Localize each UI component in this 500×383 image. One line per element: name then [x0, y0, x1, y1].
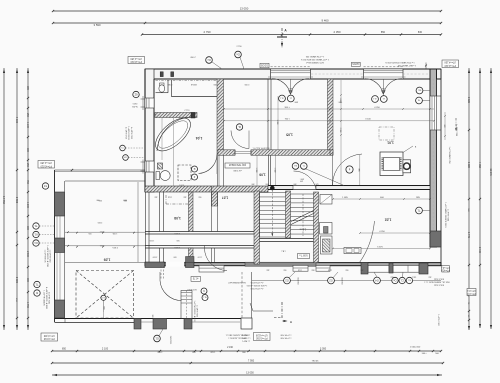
tag circle TZ [42, 183, 48, 189]
section marker A top [281, 28, 283, 48]
svg-text:K1: K1 [34, 233, 38, 237]
wing south line [65, 262, 145, 264]
stair mid hatched wall [286, 191, 291, 238]
svg-text:4 x LPTH 7030: 4 x LPTH 7030 [251, 287, 264, 289]
svg-text:UT=+4,158: UT=+4,158 [130, 57, 142, 59]
wing wall pier 2 [55, 238, 65, 253]
svg-text:900 t: 900 t [285, 106, 290, 109]
bottom dim line 2 [52, 362, 443, 364]
tag circle E1 porch [154, 335, 161, 342]
svg-text:B: B [36, 291, 38, 295]
svg-text:850 2: 850 2 [158, 352, 163, 354]
svg-text:1500/250: 1500/250 [297, 277, 299, 284]
svg-text:2 790: 2 790 [236, 46, 242, 48]
pantry dash-dot rect room 1.01 [379, 127, 394, 140]
fireplace leader [403, 146, 413, 153]
kitchen fixture sink [320, 223, 333, 235]
terrace X box [76, 271, 134, 319]
svg-text:TZ: TZ [44, 184, 48, 188]
interior dim vertical x278 [277, 96, 279, 150]
svg-text:1 685: 1 685 [342, 197, 348, 199]
tag circle left col 2 [33, 231, 39, 237]
svg-text:000 t: 000 t [265, 183, 269, 186]
svg-text:1 500: 1 500 [150, 239, 155, 241]
stair left hatched wall [254, 191, 260, 264]
svg-text:2 300: 2 300 [153, 256, 158, 258]
right dim line 1 [468, 68, 470, 330]
svg-text:1 500: 1 500 [168, 196, 172, 198]
tag circles right wall [416, 87, 423, 94]
svg-text:1 x PTH 7/250: 1 x PTH 7/250 [455, 124, 457, 136]
corridor wall y185 [268, 186, 430, 190]
entry door arc [160, 281, 182, 301]
shower dashed rect [178, 165, 191, 181]
tag circles window A [279, 95, 286, 102]
svg-text:0 080: 0 080 [168, 83, 173, 85]
svg-text:4 x EPS 1002/26 - A 3000: 4 x EPS 1002/26 - A 3000 [45, 287, 48, 309]
svg-text:900: 900 [214, 83, 217, 85]
svg-text:300: 300 [382, 87, 385, 89]
svg-text:B4L: B4L [418, 89, 421, 91]
svg-text:300: 300 [252, 183, 255, 185]
svg-text:2 100: 2 100 [102, 348, 109, 351]
toilet lower [156, 172, 160, 180]
left wall window 2 [145, 161, 154, 172]
svg-text:SZT CWBRR KLbJ: SZT CWBRR KLbJ [306, 61, 324, 63]
tag circles window B [372, 96, 379, 103]
interior dim vertical x341 [340, 80, 342, 185]
svg-text:D1: D1 [34, 241, 38, 245]
svg-text:OL1: OL1 [280, 97, 284, 99]
window A swing arcs [272, 79, 291, 94]
svg-text:825: 825 [192, 352, 195, 354]
svg-text:5 675: 5 675 [377, 246, 383, 248]
bathroom door arc [216, 154, 218, 174]
svg-text:09/10: 09/10 [133, 102, 138, 104]
kitchen fixture fridge [320, 195, 332, 205]
boxed label left bottom [41, 333, 58, 341]
svg-text:UT=+4,158: UT=+4,158 [40, 161, 52, 163]
svg-text:0021 1A - 92/8E01 ML9J 1 x 1: 0021 1A - 92/8E01 ML9J 1 x 1 [424, 281, 449, 284]
svg-text:400: 400 [184, 196, 187, 198]
svg-text:1 x PTH VARIO 225 EPS 200 S: 1 x PTH VARIO 225 EPS 200 S [385, 61, 415, 64]
svg-text:SOL/1 KLbJ: SOL/1 KLbJ [434, 278, 444, 280]
wing window lines [56, 216, 58, 238]
svg-text:1500/250: 1500/250 [341, 277, 343, 284]
svg-text:400: 400 [267, 269, 270, 271]
svg-text:1 x EPS 1002/26 - A 1250: 1 x EPS 1002/26 - A 1250 [46, 245, 49, 267]
svg-text:1 100: 1 100 [26, 122, 28, 128]
interior dim line y249 room 1.02 [333, 248, 430, 250]
svg-text:4 250: 4 250 [379, 231, 385, 233]
svg-text:G4: G4 [375, 279, 379, 283]
wall x160 room 1.07-1.08 [159, 192, 161, 232]
svg-text:400 2: 400 2 [179, 183, 184, 185]
svg-text:1,06: 1,06 [259, 173, 265, 177]
door arc room 1.05 [231, 131, 249, 149]
stair walk line left [271, 190, 273, 236]
svg-text:1 x PTH 7030: 1 x PTH 7030 [281, 337, 292, 339]
wall x268 below band [267, 156, 269, 186]
svg-text:1 x LPTH 7030: 1 x LPTH 7030 [196, 305, 198, 317]
svg-text:090 t: 090 t [123, 199, 127, 202]
svg-text:d.V 2 800: d.V 2 800 [232, 169, 241, 171]
stair cut diagonals [291, 211, 314, 222]
south wall pier left 1 [145, 262, 165, 268]
tag circle door 1.02 [346, 166, 353, 173]
svg-text:1 x BET VARIO 225: 1 x BET VARIO 225 [397, 64, 416, 67]
wing bottom wall [55, 318, 246, 320]
mid hatched wall horizontal left [218, 150, 235, 156]
interior dim line y199 [333, 198, 430, 200]
bathroom construction lines [161, 118, 163, 160]
bathroom right hatched wall [217, 79, 224, 154]
boxed label porch [191, 277, 201, 282]
svg-text:1 x DT VARIO 200 EPS 200 S: 1 x DT VARIO 200 EPS 200 S [301, 58, 329, 61]
svg-text:(09) TPS=00E15: (09) TPS=00E15 [228, 163, 246, 165]
svg-text:005 t: 005 t [98, 199, 102, 202]
svg-text:2 590: 2 590 [98, 221, 103, 223]
tag circle bath door [192, 166, 198, 172]
south wall window 1 sill [199, 265, 224, 272]
svg-text:1 380: 1 380 [467, 162, 470, 169]
boxed label top mid b [352, 62, 361, 66]
wall x217 thin below door [216, 155, 218, 186]
boxed label top left [128, 57, 145, 64]
svg-text:500: 500 [382, 90, 385, 92]
svg-text:4 x PTH 7030: 4 x PTH 7030 [48, 292, 50, 304]
leader circles to door [305, 169, 344, 186]
svg-text:CL: CL [400, 279, 404, 283]
mid hatched wall horizontal right [251, 150, 333, 156]
svg-text:005 1: 005 1 [100, 244, 105, 246]
svg-text:OLL 2: OLL 2 [184, 109, 189, 111]
porch pier 4 outline [241, 318, 252, 329]
bottom dim line 3 [52, 374, 442, 376]
svg-text:14 052: 14 052 [2, 196, 6, 204]
svg-text:1 x PTH VARIO 225: 1 x PTH VARIO 225 [305, 55, 324, 58]
south wall pier left 2 [186, 262, 195, 268]
svg-text:300: 300 [294, 182, 297, 184]
corridor door arc to porch room [205, 248, 228, 271]
svg-text:900: 900 [199, 196, 202, 198]
tag circle left col 3 [33, 240, 39, 246]
svg-text:850: 850 [381, 31, 386, 34]
interior dim line y121 [224, 120, 434, 122]
top wall window opening B [364, 69, 404, 79]
entry tag circles [201, 288, 207, 294]
tag circles south G2b [328, 277, 335, 284]
svg-text:OZ/OS: OZ/OS [260, 63, 268, 65]
svg-text:UT=+4,158: UT=+4,158 [444, 61, 456, 63]
interior dim line y109 [224, 108, 434, 110]
mid hatched wall vertical [328, 79, 334, 155]
dash-dot mark room 1.08 [166, 203, 188, 205]
svg-text:2 920: 2 920 [15, 277, 18, 284]
svg-text:1,09: 1,09 [104, 258, 111, 262]
stair start dot [270, 186, 275, 191]
svg-text:1 x EPS 1002/26: 1 x EPS 1002/26 [127, 126, 129, 140]
svg-text:1 A x: 1 A x [281, 250, 285, 253]
svg-text:2 190: 2 190 [227, 347, 233, 349]
svg-text:OL1: OL1 [373, 97, 377, 99]
hatch strip end block [191, 113, 195, 119]
svg-text:4 160: 4 160 [15, 117, 18, 124]
south wall window 2 sill [293, 265, 308, 271]
svg-text:1 x LPTH 7030: 1 x LPTH 7030 [49, 250, 51, 263]
svg-text:2 365: 2 365 [467, 97, 470, 104]
boxed label mid bottom [254, 333, 271, 341]
wc stall walls [156, 92, 169, 94]
tag circle d2 bottom [237, 353, 239, 355]
svg-text:1,01: 1,01 [387, 141, 394, 145]
wing wall pier 1 [55, 192, 65, 216]
svg-text:1 x EPS 1002/26 - A 1250: 1 x EPS 1002/26 - A 1250 [247, 284, 268, 287]
svg-text:1 x PTH 7/250: 1 x PTH 7/250 [447, 209, 449, 221]
svg-text:OZ/OS: OZ/OS [352, 62, 360, 64]
svg-text:76+P01: 76+P01 [132, 105, 138, 107]
left exterior wall upper [145, 69, 154, 192]
svg-text:500: 500 [174, 256, 177, 258]
svg-text:450: 450 [429, 276, 432, 278]
svg-text:1,04: 1,04 [196, 136, 203, 140]
top dim line 1 [53, 10, 441, 12]
svg-text:2 300: 2 300 [339, 128, 341, 133]
svg-text:1 500 t: 1 500 t [174, 232, 180, 235]
door arc stairs [294, 171, 317, 189]
corridor door opening to stairs [293, 186, 316, 190]
svg-text:G2: G2 [329, 279, 333, 283]
bath bottom wall [145, 186, 268, 192]
svg-text:9 460: 9 460 [322, 19, 329, 23]
top wall inner dashes [311, 73, 363, 75]
svg-text:900: 900 [284, 269, 287, 271]
svg-text:300: 300 [290, 87, 293, 89]
svg-text:1 x PTH 7/300: 1 x PTH 7/300 [437, 314, 439, 326]
small box right dim [467, 289, 476, 296]
svg-text:11 345: 11 345 [489, 168, 492, 176]
wing terrace top edge [55, 169, 146, 171]
dim line x257 room 1.06 [256, 156, 258, 187]
room 1.02 left wall door top [329, 150, 331, 156]
svg-text:Rd1 W-9530M6 SzBT: Rd1 W-9530M6 SzBT [227, 281, 245, 283]
svg-text:400 t: 400 t [299, 178, 304, 181]
svg-text:UT=+4,158: UT=+4,158 [255, 333, 267, 335]
boxed label top right [442, 60, 459, 68]
svg-text:1 x PTH VARIO 250: 1 x PTH VARIO 250 [448, 147, 451, 164]
svg-text:0008 1A - 62/2001 1: 0008 1A - 62/2001 1 [228, 337, 245, 340]
left inner wall lower [145, 192, 147, 263]
porch pier 2 [153, 319, 167, 330]
wing dim line y232 [65, 231, 145, 233]
svg-text:4 250: 4 250 [374, 107, 380, 109]
svg-text:500: 500 [290, 90, 293, 92]
svg-text:PT=+0,010: PT=+0,010 [40, 164, 52, 166]
svg-text:400: 400 [155, 196, 158, 198]
svg-text:1,08: 1,08 [174, 216, 181, 220]
top wall window opening A [271, 69, 311, 79]
stair walk line right [302, 194, 304, 236]
wing vertical line x138 [137, 182, 139, 262]
svg-text:050 1: 050 1 [412, 276, 416, 278]
svg-text:1 x LPTH 5726: 1 x LPTH 5726 [43, 250, 45, 263]
kitchen island lower [344, 248, 361, 254]
svg-text:1 300: 1 300 [255, 168, 257, 173]
right dim line 3 [490, 68, 492, 329]
svg-text:1 300: 1 300 [276, 120, 278, 125]
fireplace burner box [403, 160, 411, 173]
left dim line 2 [16, 68, 18, 330]
dim line x275.5 room 1.06 [275, 156, 277, 187]
wall between 1.04 and 1.05 [267, 79, 269, 150]
svg-text:400: 400 [361, 269, 364, 271]
wall x212 entrance hall hatch stub [212, 192, 218, 206]
right wall corner block [430, 231, 441, 247]
svg-text:2 350: 2 350 [334, 30, 341, 34]
svg-text:300: 300 [151, 315, 153, 318]
svg-text:13 050: 13 050 [246, 372, 254, 375]
porch pier 3 [184, 319, 192, 330]
porch side lines [241, 272, 243, 318]
entry dashed guides [160, 266, 162, 280]
svg-text:SOL/STPL KLbJ T L: SOL/STPL KLbJ T L [253, 146, 270, 148]
right exterior wall [430, 69, 437, 247]
south wall pier right 1 [361, 263, 368, 275]
left wall window [145, 98, 154, 108]
svg-text:1000-B: 1000-B [190, 83, 197, 85]
svg-text:1 900: 1 900 [26, 202, 28, 208]
svg-text:2 780: 2 780 [245, 83, 250, 85]
wing left wall outer [54, 170, 56, 322]
tag circle left col 5 [34, 290, 40, 296]
ticks corridor walls [76, 232, 78, 234]
svg-text:G2: G2 [285, 279, 289, 283]
svg-text:090 Z: 090 Z [190, 57, 196, 59]
svg-text:2 400: 2 400 [478, 247, 481, 254]
tag circles south G2a [284, 277, 291, 284]
stair flight right treads [291, 193, 314, 195]
kitchen wall hatched x313-318 [314, 192, 319, 263]
south wall dense band stairs section [245, 262, 316, 266]
svg-text:830: 830 [418, 31, 423, 34]
svg-text:005: 005 [89, 232, 92, 234]
svg-text:1 100: 1 100 [198, 256, 203, 258]
tag circle left col 1 [33, 223, 39, 229]
hatched wall strip bathroom [155, 113, 197, 118]
south wall window 3 sill [316, 265, 330, 271]
svg-text:PT=+2,210: PT=+2,210 [444, 64, 456, 66]
tag circle south G4 [374, 277, 381, 284]
svg-text:800: 800 [242, 352, 245, 354]
window B swing arcs [365, 79, 384, 94]
top exterior wall [145, 69, 441, 79]
south wall pier right 2 [389, 263, 393, 273]
svg-text:300 t: 300 t [293, 101, 298, 104]
svg-text:2 790: 2 790 [204, 30, 211, 34]
svg-text:4 x LPTH 5726: 4 x LPTH 5726 [125, 127, 127, 139]
svg-text:1,05: 1,05 [286, 133, 293, 137]
svg-text:1 400: 1 400 [328, 269, 332, 271]
top dim line 2 [53, 22, 441, 24]
bathtub oval [150, 112, 196, 156]
svg-text:1,02: 1,02 [385, 218, 392, 222]
boxed label top mid a [260, 63, 269, 68]
boxed label stairwell [298, 254, 310, 259]
entry steps [181, 291, 192, 319]
washing machine hatched block [158, 163, 163, 169]
svg-text:4 x LPTH 7030: 4 x LPTH 7030 [130, 127, 132, 139]
svg-text:1 x PTH 7030: 1 x PTH 7030 [281, 334, 292, 336]
svg-text:500: 500 [177, 239, 180, 241]
south wall door 4 sill [368, 265, 389, 272]
hatched wall x190 [189, 192, 194, 232]
hatch band door gap [234, 150, 236, 156]
top dim line 3 [142, 34, 441, 36]
right dim line 2 [479, 68, 481, 328]
svg-text:1 300: 1 300 [273, 168, 275, 173]
interior dim line y233 room 1.02 [360, 232, 430, 234]
boxed label left mid [38, 161, 55, 169]
svg-text:900: 900 [346, 269, 349, 271]
svg-text:1/T=+4,1: 1/T=+4,1 [440, 266, 450, 268]
wall x212 entrance hall [211, 186, 213, 232]
boxed label right south [442, 266, 450, 273]
svg-text:1 x DT VARIO 200 EPS 200 S: 1 x DT VARIO 200 EPS 200 S [444, 202, 447, 228]
svg-text:0061 1A - 62/2001 SB3 x 1: 0061 1A - 62/2001 SB3 x 1 [226, 334, 249, 337]
room 1.02 door leaf and arc [332, 154, 334, 186]
tag circle T1 room 1.02 [416, 207, 423, 214]
svg-text:3 050: 3 050 [320, 348, 327, 351]
wc interior dashed line [156, 79, 217, 81]
svg-text:2900/0051: 2900/0051 [169, 336, 171, 345]
tag circle 62 [133, 91, 139, 97]
svg-text:2 300: 2 300 [26, 251, 28, 257]
interior dim marks terrace [103, 312, 105, 318]
chimney vent square 2 [171, 72, 174, 77]
svg-text:UT=-0,1: UT=-0,1 [467, 289, 476, 291]
corridor walls horizontal [145, 231, 254, 233]
boxed label room 1.06 [225, 163, 250, 168]
svg-text:9L1: 9L1 [294, 164, 297, 166]
svg-text:790 05: 790 05 [312, 360, 319, 362]
svg-text:1 750: 1 750 [26, 302, 28, 308]
svg-text:1 005: 1 005 [113, 232, 118, 234]
svg-text:L x H&P 1: L x H&P 1 [242, 340, 250, 342]
svg-text:NL1: NL1 [203, 296, 206, 298]
terrace center circle [101, 295, 106, 300]
svg-text:1 x PTW 1000/26 - A 1150: 1 x PTW 1000/26 - A 1150 [193, 301, 196, 322]
south wall window 5 sill [393, 265, 419, 272]
svg-text:SOL/1 KLbJ: SOL/1 KLbJ [434, 284, 444, 286]
stair flight left treads [260, 192, 286, 194]
svg-text:450: 450 [391, 276, 394, 278]
svg-text:090 t: 090 t [337, 101, 342, 104]
kitchen fixture stove [321, 236, 333, 254]
svg-text:PT=+0,0: PT=+0,0 [440, 269, 450, 271]
south wall pier right 3 [419, 263, 428, 274]
tag circle top mid [206, 57, 213, 64]
fireplace stove island [380, 152, 403, 176]
left dim line 1 [3, 68, 5, 330]
svg-text:1 745: 1 745 [467, 232, 470, 239]
tag circles corridor [292, 163, 299, 170]
svg-text:2 300 t: 2 300 t [112, 246, 118, 249]
svg-text:PT=+0,010: PT=+0,010 [130, 60, 142, 62]
svg-text:825 1: 825 1 [211, 352, 216, 354]
wc toilet [160, 83, 165, 86]
svg-text:9,08 T x: 9,08 T x [299, 254, 308, 256]
svg-text:E: E [193, 167, 195, 171]
